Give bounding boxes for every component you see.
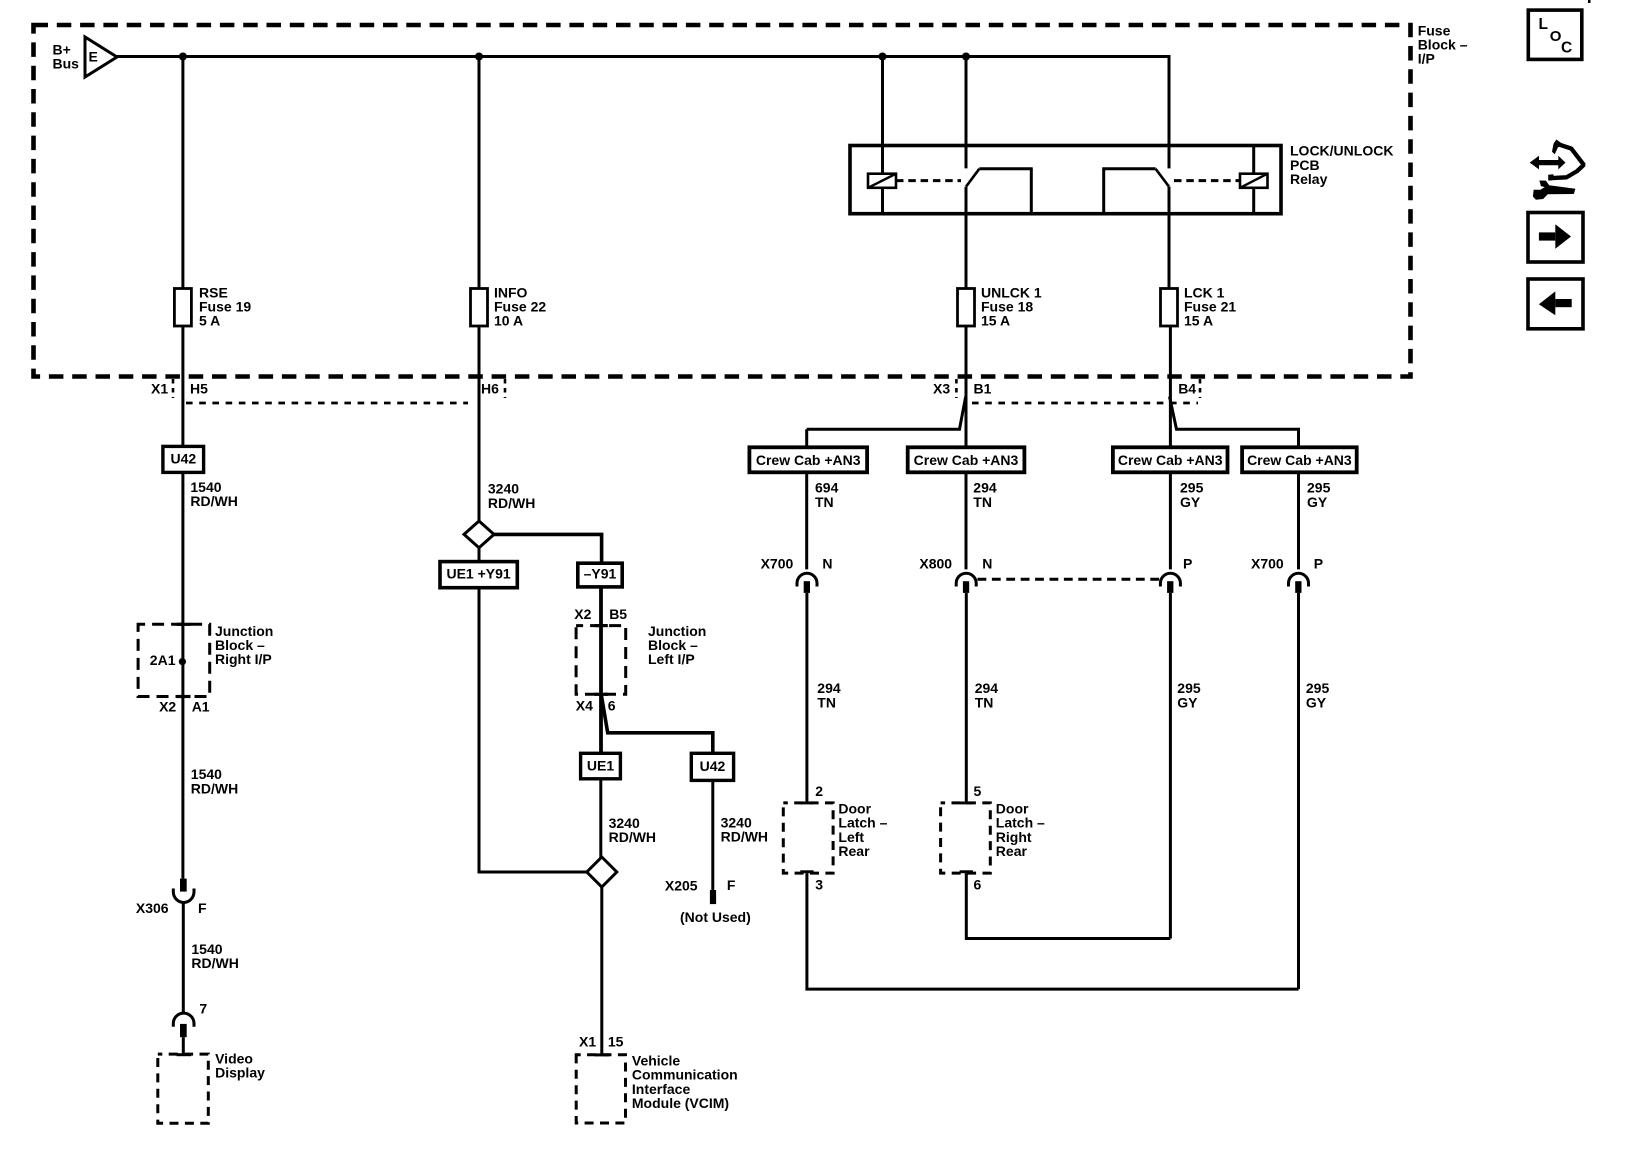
icon power flow (double arrow with outline arrow and wrench) <box>1530 140 1584 200</box>
relay switch lock (right) <box>1102 169 1169 214</box>
svg-text:Right I/P: Right I/P <box>215 651 272 667</box>
svg-text:3: 3 <box>815 876 823 892</box>
wire label 295 GY (col4 upper) <box>1307 480 1331 510</box>
svg-text:Module (VCIM): Module (VCIM) <box>632 1095 729 1111</box>
node Crew Cab +AN3 box 3 <box>1113 447 1228 472</box>
svg-text:RD/WH: RD/WH <box>721 829 768 845</box>
label Video Display <box>215 1051 265 1081</box>
wire label 295 GY (col4 lower) <box>1306 680 1330 710</box>
svg-text:GY: GY <box>1307 494 1328 510</box>
wire UE1 to diamond S2 <box>599 779 602 858</box>
node -Y91 box <box>578 563 622 587</box>
connector X1 labels H5 H6 <box>151 380 499 396</box>
wire crew4 down <box>1297 472 1300 569</box>
wire label 694 TN <box>815 480 839 510</box>
dashed connector link X800 to P <box>978 578 1161 581</box>
wire branch junction block left to U42 (right leg) <box>602 696 713 753</box>
label Vehicle Communication Interface Module <box>632 1052 738 1111</box>
wire lock switch to LCK fuse <box>1168 187 1171 289</box>
svg-text:TN: TN <box>973 494 992 510</box>
wire label 3240 RD/WH (U42 col) <box>721 814 768 844</box>
label Fuse Block - I/P <box>1418 22 1468 66</box>
node UE1 +Y91 box <box>440 562 517 588</box>
svg-text:UE1 +Y91: UE1 +Y91 <box>446 566 510 582</box>
wire crew2 to X800 connector <box>965 472 968 569</box>
wire U42 to X205 terminal <box>711 780 714 890</box>
inline connector X800 N <box>956 573 976 593</box>
svg-text:X1: X1 <box>579 1033 596 1049</box>
svg-text:E: E <box>89 49 98 65</box>
wire label 294 TN (col1) <box>817 680 841 710</box>
door latch right rear terminal bar bottom <box>960 870 973 873</box>
connector X3 labels B1 B4 <box>933 380 1196 396</box>
B+ Bus label <box>53 42 80 72</box>
svg-text:Rear: Rear <box>838 843 870 859</box>
wire P down to junction with pin6 <box>1169 593 1172 939</box>
fuse UNLCK 1 Fuse 18 15A <box>958 289 975 327</box>
svg-text:N: N <box>982 556 992 572</box>
fuse LCK 1 Fuse 21 15A <box>1161 289 1178 327</box>
svg-text:7: 7 <box>199 1000 207 1016</box>
junction dot bus/INFO <box>475 53 483 61</box>
svg-text:X1: X1 <box>151 380 168 396</box>
svg-text:X306: X306 <box>136 900 169 916</box>
svg-text:Left I/P: Left I/P <box>648 651 695 667</box>
wire X700 to door latch left pin 2 <box>805 593 808 803</box>
svg-text:L: L <box>1539 16 1548 33</box>
wire bus to INFO fuse down <box>478 57 481 562</box>
door latch left rear terminal bar bottom <box>800 870 813 873</box>
label Door Latch Right Rear <box>996 801 1045 860</box>
door latch right rear dashed box <box>941 803 991 873</box>
svg-text:A1: A1 <box>192 699 210 715</box>
door latch left rear terminal bar top <box>800 802 813 805</box>
connector X1 dotted outline <box>173 379 505 403</box>
fuse block I/P dashed boundary <box>34 25 1411 377</box>
wire B1 kink to crew cab 1 <box>807 397 966 430</box>
pin labels X2 A1 <box>159 699 210 715</box>
node U42 box (VCIM column) <box>691 753 733 780</box>
svg-text:TN: TN <box>817 694 836 710</box>
svg-text:RD/WH: RD/WH <box>190 493 237 509</box>
svg-text:X700: X700 <box>761 556 794 572</box>
wire UE1+Y91 down and over to diamond S2 <box>479 588 587 872</box>
inline connector X700 P <box>1289 573 1309 593</box>
svg-text:C: C <box>1561 39 1572 56</box>
svg-text:RD/WH: RD/WH <box>191 780 238 796</box>
icon arrow right box <box>1528 213 1583 263</box>
splice diamond S2 <box>587 857 617 887</box>
relay switch unlock (left) <box>966 169 1033 214</box>
label Junction Block - Left I/P <box>648 623 706 667</box>
junction dot bus/RSE <box>179 53 187 61</box>
wire diamond S2 to VCIM <box>600 887 603 1055</box>
svg-text:X2: X2 <box>159 699 176 715</box>
label Junction Block - Right I/P <box>215 623 273 667</box>
wire: B+ bus horizontal <box>117 55 1171 58</box>
svg-text:5 A: 5 A <box>199 313 220 329</box>
svg-text:–Y91: –Y91 <box>584 566 617 582</box>
svg-text:Bus: Bus <box>53 56 80 72</box>
svg-text:RD/WH: RD/WH <box>191 955 238 971</box>
svg-text:X4: X4 <box>576 698 593 714</box>
svg-text:Crew Cab +AN3: Crew Cab +AN3 <box>914 452 1019 468</box>
wire diamond to -Y91 branch <box>494 534 602 563</box>
wire label 1540 RD/WH middle <box>191 766 238 796</box>
svg-text:GY: GY <box>1306 694 1327 710</box>
svg-text:RD/WH: RD/WH <box>609 829 656 845</box>
svg-text:UE1: UE1 <box>587 757 614 773</box>
svg-text:H5: H5 <box>190 380 208 396</box>
label X700 P <box>1251 556 1323 572</box>
wire B4 kink to crew cab 4 <box>1170 397 1299 448</box>
wire crew1 to X700 connector <box>805 472 808 569</box>
svg-text:GY: GY <box>1177 694 1198 710</box>
svg-text:N: N <box>822 556 832 572</box>
video display dashed box <box>158 1054 209 1123</box>
label X205 F <box>665 877 736 894</box>
node Crew Cab +AN3 box 4 <box>1242 447 1357 472</box>
label X800 N <box>919 556 992 572</box>
svg-text:Display: Display <box>215 1065 265 1081</box>
node U42 box (RSE column) <box>163 446 204 472</box>
label X306 F <box>136 900 207 916</box>
wire right coil to relay box bottom <box>1252 188 1255 214</box>
svg-text:TN: TN <box>975 694 994 710</box>
wire label 1540 RD/WH lower <box>191 941 238 971</box>
svg-text:X2: X2 <box>574 606 591 622</box>
splice diamond S1 <box>464 521 494 548</box>
wire bus corner to lock switch fixed contact <box>1168 55 1171 168</box>
inline connector pin 7 <box>173 1013 194 1037</box>
connector label H6 column: wire label 3240 RD/WH <box>488 481 535 511</box>
svg-text:X205: X205 <box>665 878 698 894</box>
wire pin7 to video display <box>182 1037 185 1054</box>
svg-text:2A1: 2A1 <box>150 652 176 668</box>
wire B4 straight to crew cab 3 <box>1169 326 1172 447</box>
svg-text:GY: GY <box>1180 494 1201 510</box>
svg-text:X3: X3 <box>933 380 950 396</box>
svg-text:6: 6 <box>974 876 982 892</box>
label RSE fuse <box>199 284 251 328</box>
svg-text:Relay: Relay <box>1290 171 1328 187</box>
pin labels X1 15 <box>579 1033 624 1049</box>
wire label 1540 RD/WH upper <box>190 479 237 509</box>
dashed control line right coil to switch <box>1174 179 1240 182</box>
svg-text:Crew Cab +AN3: Crew Cab +AN3 <box>1118 452 1223 468</box>
pin labels X2 B5 <box>574 606 627 622</box>
svg-text:P: P <box>1314 556 1323 572</box>
svg-text:H6: H6 <box>481 380 499 396</box>
video display terminal bar <box>177 1053 192 1056</box>
svg-text:U42: U42 <box>170 450 196 466</box>
wire left coil to relay box bottom <box>881 188 884 214</box>
wire X700 P down to junction with pin3 <box>1297 593 1300 989</box>
label INFO fuse <box>494 284 546 328</box>
wire label 294 TN (col2 lower) <box>975 680 999 710</box>
svg-text:I/P: I/P <box>1418 51 1435 67</box>
inline connector X306 F <box>173 879 194 903</box>
node UE1 box <box>581 753 621 779</box>
pin labels X4 6 <box>576 698 616 714</box>
node Crew Cab +AN3 box 1 <box>749 447 867 472</box>
door latch right rear terminal bar top <box>960 802 973 805</box>
svg-text:10 A: 10 A <box>494 313 523 329</box>
relay coil right <box>1240 174 1268 188</box>
svg-text:F: F <box>198 900 207 916</box>
wire pin3 down right to col4 <box>807 873 1299 989</box>
svg-text:B1: B1 <box>974 380 992 396</box>
door latch left rear dashed box <box>783 803 833 873</box>
wire X306 to pin7 connector <box>182 903 185 1015</box>
label Door Latch Left Rear <box>838 801 887 860</box>
junction block left I/P dashed box <box>576 626 626 695</box>
junction dot bus/unlock switch <box>962 53 970 61</box>
svg-text:5: 5 <box>974 783 982 799</box>
svg-text:Crew Cab +AN3: Crew Cab +AN3 <box>1247 452 1352 468</box>
wire label 295 GY (col3 lower) <box>1177 680 1201 710</box>
svg-text:F: F <box>727 877 736 893</box>
junction dot bus/relay coil <box>879 53 887 61</box>
VCIM terminal bar <box>595 1053 610 1056</box>
svg-text:P: P <box>1183 556 1192 572</box>
fuse RSE Fuse 19 5A <box>174 289 191 327</box>
VCIM dashed box <box>576 1055 625 1123</box>
wire label 3240 RD/WH (UE1 col) <box>609 815 656 845</box>
label LOCK/UNLOCK PCB Relay <box>1290 143 1393 187</box>
svg-text:Rear: Rear <box>996 843 1028 859</box>
svg-text:15: 15 <box>608 1033 624 1049</box>
label 2A1 and junction dot <box>150 652 186 668</box>
label LCK fuse <box>1184 284 1236 328</box>
svg-text:TN: TN <box>815 494 834 510</box>
fuse INFO Fuse 22 10A <box>471 289 488 327</box>
inline connector P (lock) <box>1160 573 1180 593</box>
node Crew Cab +AN3 box 2 <box>908 447 1025 472</box>
connector X3 dotted outline <box>956 379 1200 403</box>
wire relay box top to right coil <box>1252 146 1255 174</box>
svg-text:U42: U42 <box>700 758 726 774</box>
svg-text:15 A: 15 A <box>981 313 1010 329</box>
dashed control line left coil to switch <box>896 179 961 182</box>
relay box LOCK/UNLOCK PCB <box>850 146 1281 214</box>
wire crew3 down <box>1169 472 1172 569</box>
svg-text:Crew Cab +AN3: Crew Cab +AN3 <box>756 452 861 468</box>
svg-text:(Not Used): (Not Used) <box>680 909 751 925</box>
relay coil left <box>868 174 896 188</box>
wire U42 to junction block right <box>181 472 184 878</box>
wire pin6 down right to col3 <box>966 873 1170 938</box>
wire label 295 GY (col3 upper) <box>1180 480 1204 510</box>
wire unlock switch to UNLCK fuse <box>965 187 968 289</box>
wire bus to left relay coil <box>881 57 884 174</box>
wire bus to RSE fuse down to U42 <box>181 57 184 447</box>
svg-text:15 A: 15 A <box>1184 313 1213 329</box>
wire B1 straight to crew cab 2 <box>965 326 968 447</box>
svg-text:6: 6 <box>608 698 616 714</box>
B+ bus source triangle E <box>85 37 117 77</box>
svg-text:B5: B5 <box>609 606 627 622</box>
wire label 294 TN (col2 upper) <box>973 480 997 510</box>
icon arrow left box <box>1528 279 1583 329</box>
wire bus into unlock switch fixed contact <box>965 57 968 169</box>
inline connector X700 N <box>797 573 817 593</box>
artifact tick top right <box>1588 0 1591 3</box>
icon LOC box <box>1528 10 1582 59</box>
svg-text:RD/WH: RD/WH <box>488 495 535 511</box>
svg-text:2: 2 <box>815 783 823 799</box>
label X700 N <box>761 556 833 572</box>
svg-text:X700: X700 <box>1251 556 1284 572</box>
wire -Y91 to junction block left <box>599 587 603 753</box>
svg-text:X800: X800 <box>919 556 952 572</box>
svg-text:O: O <box>1550 28 1562 45</box>
wire X800 to door latch right pin 5 <box>965 593 968 803</box>
label UNLCK fuse <box>981 284 1042 328</box>
svg-text:B4: B4 <box>1178 380 1196 396</box>
terminal X205 pin (not used) <box>710 890 716 904</box>
junction block right I/P dashed box <box>138 624 210 696</box>
